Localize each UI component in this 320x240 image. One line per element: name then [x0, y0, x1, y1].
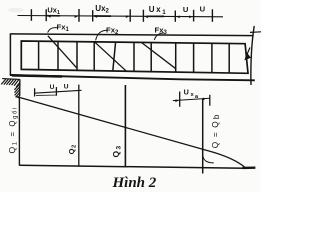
tick T1	[30, 9, 32, 21]
stirrup S6	[133, 42, 135, 71]
crack Fx2	[95, 42, 127, 71]
support face line	[19, 79, 21, 96]
svg-text:Ux2: Ux2	[95, 4, 109, 15]
tick T8	[211, 9, 213, 21]
beam outer bottom edge	[10, 75, 255, 80]
tick U-dim middle	[55, 87, 57, 96]
stirrup S4	[93, 42, 95, 71]
leader hook Fx2	[96, 30, 107, 40]
svg-text:Q = Qb: Q = Qb	[211, 113, 221, 148]
support hatching	[1, 79, 20, 98]
beam cut line (right end)	[251, 26, 254, 85]
svg-text:U: U	[200, 4, 206, 13]
dimension Uxa	[173, 98, 210, 100]
svg-text:x: x	[191, 92, 195, 98]
stirrup S10	[211, 43, 213, 72]
tick U-dim left	[34, 88, 36, 96]
shear diagram baseline thick end	[243, 166, 256, 169]
leader hook Fx3	[154, 33, 164, 40]
beam outer top edge	[10, 34, 253, 36]
Uxa arrowheads	[175, 98, 206, 103]
svg-text:U: U	[183, 5, 189, 14]
crack Fx3	[142, 43, 176, 69]
tick T7	[193, 10, 195, 22]
ordinate Q2	[78, 85, 80, 167]
leader hook Fx1	[48, 28, 57, 33]
ordinate Q3	[124, 85, 126, 167]
tick T2	[45, 9, 47, 21]
scan smudge top-left	[9, 8, 24, 13]
support surface line	[2, 78, 20, 81]
stirrup S1	[38, 41, 40, 69]
beam outer left edge	[9, 33, 11, 75]
shear envelope line	[16, 96, 245, 167]
tick T6	[174, 11, 176, 22]
stirrup cage inner box	[21, 41, 248, 73]
stirrup S7	[150, 43, 152, 72]
tick T5	[142, 10, 144, 22]
beam cut arrow	[247, 48, 251, 56]
svg-text:Fx1: Fx1	[57, 22, 70, 33]
ordinate Q4	[202, 98, 204, 173]
beam break stub top right	[250, 31, 261, 34]
outer bottom dark left run	[12, 75, 62, 76]
svg-text:Q1 = Qgối: Q1 = Qgối	[7, 106, 19, 153]
svg-text:Hình 2: Hình 2	[112, 175, 157, 191]
tick Uxa left	[179, 92, 181, 107]
svg-text:Q3: Q3	[111, 145, 123, 157]
shear diagram baseline	[19, 165, 245, 168]
svg-text:U: U	[184, 87, 189, 96]
dimension U U under support	[34, 90, 82, 93]
dimension arrowheads	[47, 15, 192, 18]
stirrup S5	[113, 42, 116, 71]
stirrup S2	[57, 41, 59, 70]
tick T4	[92, 10, 94, 21]
stirrup S9	[193, 43, 195, 72]
tick T3	[78, 9, 80, 22]
ghost line under U dim	[36, 94, 57, 96]
stirrup S3	[76, 42, 78, 71]
svg-text:Ux1: Ux1	[47, 5, 60, 16]
tick Uxa right	[209, 95, 211, 106]
top dimension line	[18, 16, 224, 17]
svg-text:Ux1: Ux1	[149, 5, 167, 16]
svg-text:U: U	[50, 84, 55, 91]
stirrup S11	[228, 44, 230, 74]
tick T4b	[129, 9, 131, 21]
svg-text:Q2: Q2	[67, 145, 78, 155]
leader hook Qb	[203, 155, 214, 163]
crack Fx1	[48, 36, 77, 68]
svg-text:U: U	[64, 83, 69, 90]
stirrup S8	[175, 43, 177, 72]
shear diagram left edge	[18, 97, 20, 166]
